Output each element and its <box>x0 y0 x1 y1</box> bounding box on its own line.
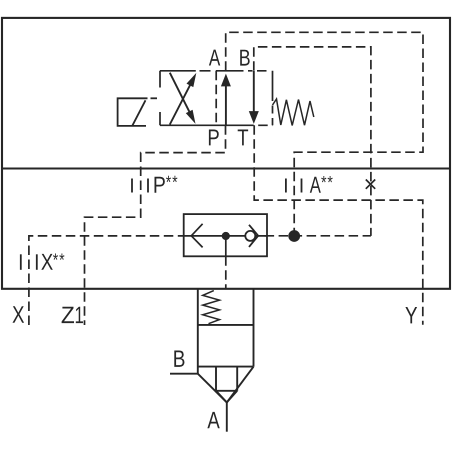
port label A** <box>310 177 321 193</box>
check valve flow arrowhead <box>191 224 202 248</box>
port label P** <box>155 177 165 193</box>
cartridge poppet <box>198 367 254 403</box>
plug X symbol <box>366 180 375 189</box>
block divider line <box>2 167 450 169</box>
pilot valve crossed arrow A-T <box>170 73 196 124</box>
port label Z1 <box>62 307 74 323</box>
port label A (pilot) <box>209 50 220 66</box>
port label Y <box>405 307 417 323</box>
pilot line check valve to cartridge <box>225 256 227 289</box>
solenoid <box>118 98 157 126</box>
cartridge valve body <box>198 289 254 374</box>
pilot line B to plug <box>254 47 371 236</box>
check valve ball <box>245 231 255 241</box>
pilot valve up arrow P-A <box>221 74 231 125</box>
check valve body <box>184 214 267 256</box>
check valve flow line <box>184 235 267 237</box>
port label B (cartridge) <box>174 351 184 367</box>
port label T (pilot) <box>238 130 248 146</box>
port X** interface bars <box>21 254 37 269</box>
manifold block border <box>2 18 450 289</box>
check valve seat <box>249 225 258 247</box>
pilot valve spring <box>273 99 314 125</box>
pilot line T to Y <box>254 125 423 324</box>
junction dot at A branch <box>288 230 300 242</box>
port label X** <box>41 254 53 270</box>
port A** interface bars <box>286 179 302 193</box>
pilot line P to Z1 <box>85 125 226 325</box>
cartridge spring <box>203 291 220 324</box>
junction dot in check valve <box>222 232 230 240</box>
wire dot to plug branch <box>265 235 371 237</box>
port label A (cartridge) <box>207 412 219 428</box>
port label X <box>13 306 25 322</box>
pilot line A to spring chamber <box>226 32 423 236</box>
pilot line X to check valve <box>29 236 184 325</box>
cartridge port B line <box>170 373 198 375</box>
wire from junction dot to check valve bottom <box>225 236 227 256</box>
port label B (pilot) <box>240 50 249 66</box>
pilot valve body <box>160 71 273 126</box>
port P** interface bars <box>132 179 148 193</box>
pilot valve crossed arrow P-B <box>170 73 197 125</box>
cartridge port A line <box>226 402 228 431</box>
port label P (pilot) <box>209 130 219 146</box>
pilot valve down arrow B-T <box>249 71 259 124</box>
